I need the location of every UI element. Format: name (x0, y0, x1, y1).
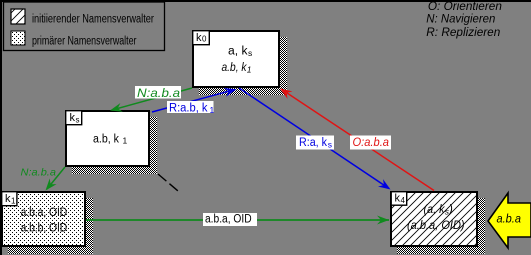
svg-text:O:a.b.a: O:a.b.a (353, 137, 390, 149)
svg-text:(a, k: (a, k (424, 204, 446, 216)
box k1 (primary, dotted) (2, 192, 85, 246)
arrowhead red at k0 (280, 89, 293, 99)
wire green N arrow k0 to ks (112, 88, 192, 110)
wire green arrow k1 to k4 (86, 219, 389, 221)
legend box (4, 2, 165, 51)
arrowhead green at k4 (377, 216, 389, 225)
svg-text:a.b.a, OID: a.b.a, OID (205, 214, 252, 226)
svg-text:1: 1 (123, 136, 128, 146)
svg-text:s: s (328, 140, 332, 150)
svg-text:R:a, k: R:a, k (299, 137, 327, 149)
svg-text:s: s (248, 48, 252, 58)
svg-text:R:a.b, k: R:a.b, k (169, 103, 208, 115)
wire red O arrow k4 to k0 (281, 89, 434, 191)
svg-text:primärer Namensverwalter: primärer Namensverwalter (32, 36, 137, 48)
svg-text:0: 0 (202, 34, 207, 43)
svg-text:1: 1 (11, 196, 16, 205)
label N:a.b.a (k0 to ks) (135, 86, 181, 99)
svg-text:a.b, k: a.b, k (93, 134, 119, 146)
dashed line from ks corner (158, 174, 178, 191)
svg-text:a, k: a, k (228, 45, 248, 57)
box ks corner label (66, 111, 82, 125)
label R:a.b, k1 (ks to k0) (167, 101, 214, 113)
arrowhead blue at k0 (224, 88, 237, 97)
label R:a, ks (k0 to k4) (296, 136, 334, 150)
svg-text:O: Orientieren: O: Orientieren (428, 1, 502, 13)
box k0 corner label (193, 31, 210, 45)
svg-text:initiierender Namensverwalter: initiierender Namensverwalter (32, 14, 154, 26)
box ks shadow (72, 117, 157, 174)
yellow block arrow (488, 193, 531, 248)
svg-text:4: 4 (401, 196, 406, 205)
arrowhead green at ks (110, 103, 123, 112)
box k0 shadow (199, 37, 287, 95)
svg-text:N:a.b.a: N:a.b.a (21, 166, 57, 178)
svg-text:(a.b.a, OID): (a.b.a, OID) (407, 220, 465, 232)
box ks (66, 111, 149, 166)
legend dots swatch (11, 31, 25, 45)
svg-text:1: 1 (210, 105, 215, 115)
svg-text:a.b.a, OID: a.b.a, OID (21, 207, 68, 219)
box k1 corner label (2, 192, 17, 206)
svg-text:N:a.b.a: N:a.b.a (137, 88, 180, 100)
legend hatch swatch (11, 9, 25, 24)
box k4 corner label (391, 192, 407, 206)
svg-text:s: s (76, 115, 80, 124)
label a.b.a, OID (k1 to k4) (203, 213, 257, 226)
svg-text:a.b.a: a.b.a (497, 211, 522, 225)
svg-text:N: Navigieren: N: Navigieren (426, 14, 495, 26)
left border strip (0, 0, 2, 255)
svg-text:1: 1 (247, 64, 252, 74)
svg-text:R: Replizieren: R: Replizieren (426, 27, 500, 39)
svg-text:a.b.b, OID: a.b.b, OID (21, 223, 68, 235)
label O:a.b.a (k4 to k0) (350, 136, 391, 150)
wire blue R arrow k0 to k4 (239, 88, 389, 189)
svg-text:a.b, k: a.b, k (222, 62, 248, 74)
wire green N arrow ks to k1 (47, 167, 65, 189)
arrowhead blue at k4 (378, 179, 391, 189)
arrowhead green at k1 (46, 178, 57, 190)
wire blue R arrow ks to k0 (152, 90, 234, 112)
box k0 (193, 31, 279, 87)
box k4 (initiating, hatched) (391, 192, 477, 246)
top border strip (0, 0, 531, 2)
box k1 shadow (8, 198, 93, 254)
box k4 shadow (397, 198, 485, 254)
